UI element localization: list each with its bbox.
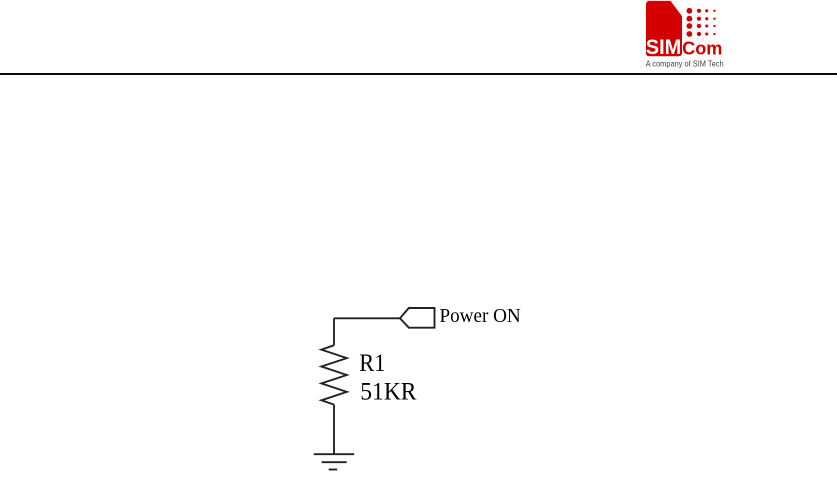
logo dots grid: [687, 8, 716, 37]
svg-text:SIM: SIM: [646, 36, 681, 59]
svg-text:Com: Com: [682, 38, 722, 58]
svg-text:A company of SIM Tech: A company of SIM Tech: [646, 58, 724, 68]
wire horizontal from node to Power ON tag: [334, 317, 400, 319]
svg-text:R1: R1: [359, 350, 385, 377]
svg-text:51KR: 51KR: [360, 379, 417, 406]
connector tag Power ON: [400, 308, 435, 328]
svg-text:Power ON: Power ON: [440, 306, 521, 327]
ground symbol: [314, 454, 354, 469]
resistor R1 zigzag: [321, 345, 346, 404]
SIMCom logo card: [646, 1, 682, 56]
header rule: [0, 73, 837, 75]
wire vertical from resistor R1 bottom to ground: [333, 405, 335, 455]
wire vertical from node to resistor R1 top: [333, 318, 335, 345]
